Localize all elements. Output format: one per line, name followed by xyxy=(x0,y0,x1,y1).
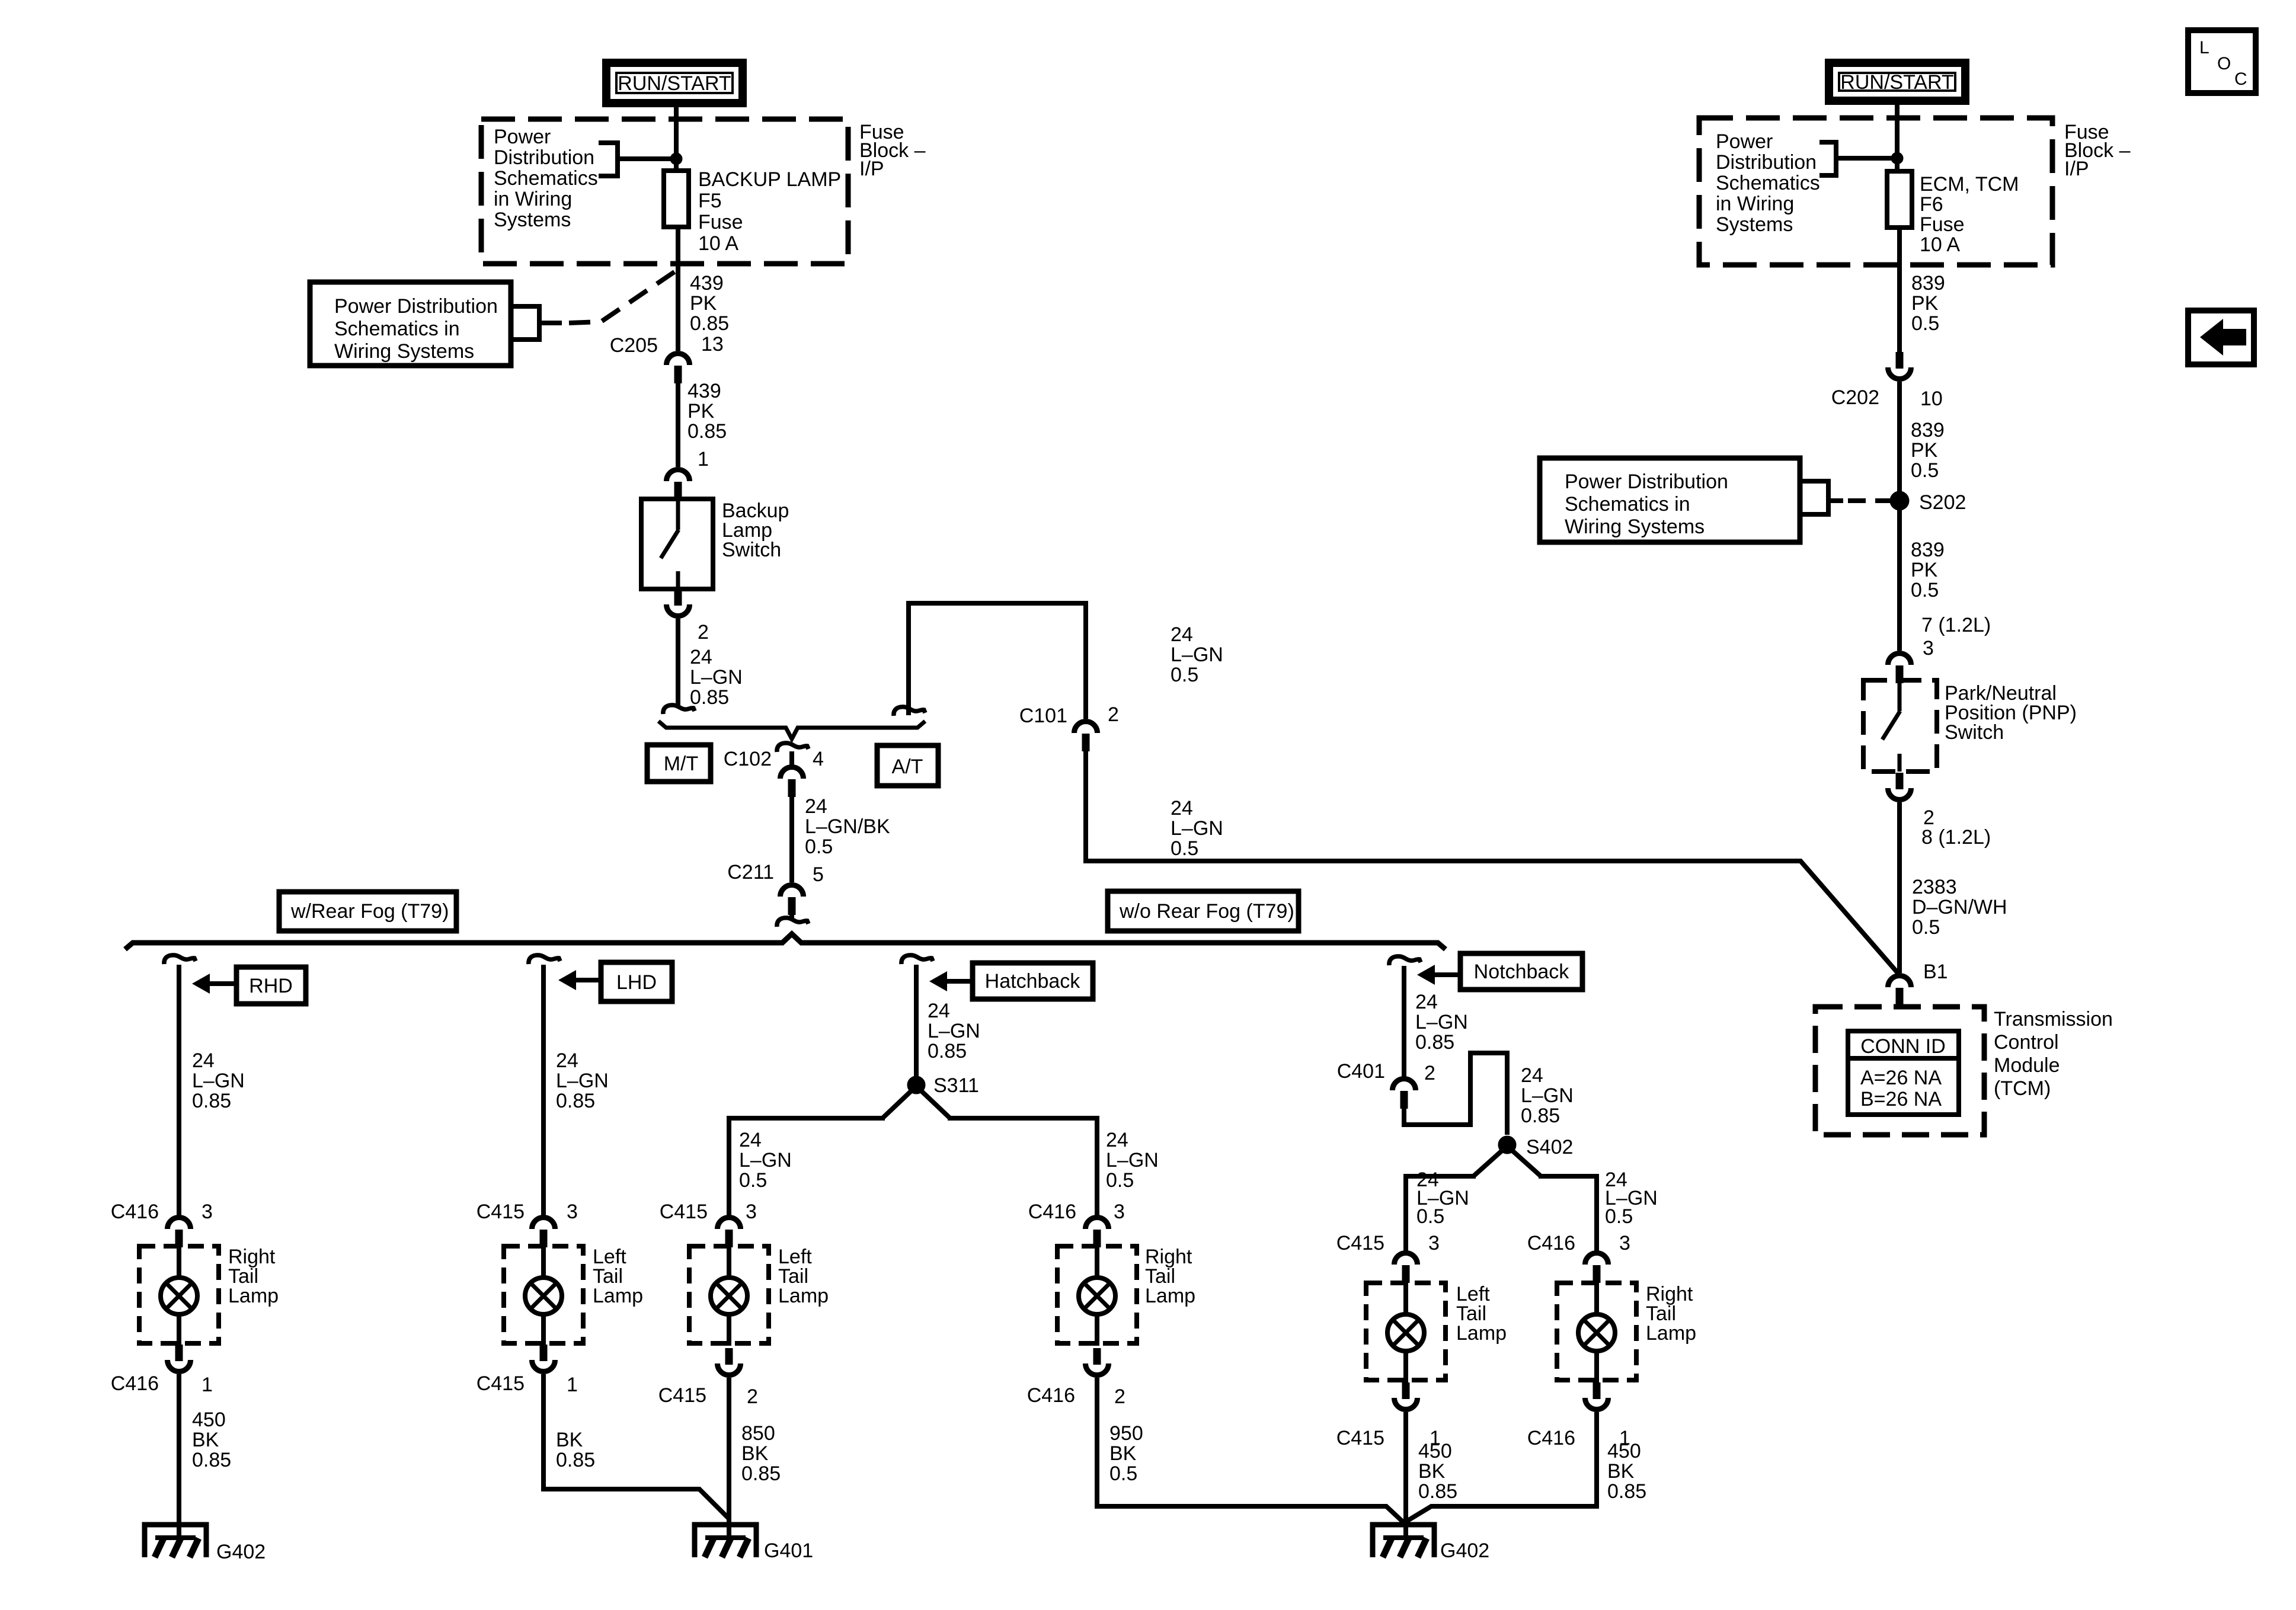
wire RUN/START to fuse block (right) xyxy=(1895,105,1900,172)
wire to ground, label 450 BK 0.85 xyxy=(177,1374,181,1538)
svg-text:C205: C205 xyxy=(610,334,658,357)
svg-text:BK: BK xyxy=(1418,1460,1446,1483)
svg-text:PK: PK xyxy=(1911,439,1938,462)
svg-text:0.85: 0.85 xyxy=(690,312,729,335)
svg-text:0.5: 0.5 xyxy=(1911,312,1939,335)
svg-text:CONN ID: CONN ID xyxy=(1860,1035,1946,1058)
svg-text:L: L xyxy=(2199,38,2209,57)
svg-text:Wiring Systems: Wiring Systems xyxy=(1565,516,1705,538)
svg-text:S202: S202 xyxy=(1919,491,1966,514)
svg-text:C416: C416 xyxy=(1028,1201,1076,1223)
svg-text:Fuse: Fuse xyxy=(698,211,743,233)
svg-text:A=26 NA: A=26 NA xyxy=(1860,1067,1942,1089)
svg-text:Transmission: Transmission xyxy=(1994,1008,2113,1030)
svg-text:C101: C101 xyxy=(1019,705,1067,727)
wire fuse F5 to connector C205 xyxy=(676,227,680,351)
svg-text:3: 3 xyxy=(1619,1232,1630,1254)
svg-text:RUN/START: RUN/START xyxy=(618,72,731,95)
left tail lamp (notchback) xyxy=(1366,1283,1446,1380)
svg-text:S311: S311 xyxy=(933,1074,979,1097)
svg-text:(TCM): (TCM) xyxy=(1994,1077,2051,1100)
park/neutral position (PNP) switch xyxy=(1863,680,1937,772)
svg-text:C401: C401 xyxy=(1337,1060,1385,1083)
svg-text:B=26 NA: B=26 NA xyxy=(1860,1088,1942,1110)
fuse F6 ECM, TCM 10 A xyxy=(1887,171,1912,228)
svg-text:4: 4 xyxy=(813,748,824,770)
Hatchback branch wire, label 24 L-GN 0.85 xyxy=(914,965,919,1081)
fuse F5 BACKUP LAMP 10 A xyxy=(664,171,689,227)
svg-text:Lamp: Lamp xyxy=(228,1285,279,1307)
ground G402 (left) xyxy=(145,1525,206,1557)
svg-text:0.5: 0.5 xyxy=(1911,579,1939,601)
svg-text:I/P: I/P xyxy=(2064,158,2089,180)
svg-text:7 (1.2L): 7 (1.2L) xyxy=(1921,614,1991,636)
S311 split wires to two lamps xyxy=(882,1086,950,1118)
svg-text:Systems: Systems xyxy=(1716,213,1793,236)
svg-text:0.85: 0.85 xyxy=(687,420,727,443)
svg-text:L–GN/BK: L–GN/BK xyxy=(805,815,890,838)
transmission control module (TCM) dashed box xyxy=(1815,1007,1984,1135)
svg-text:24: 24 xyxy=(556,1049,578,1072)
svg-text:Notchback: Notchback xyxy=(1474,961,1570,983)
svg-text:RUN/START: RUN/START xyxy=(1840,71,1953,94)
svg-text:13: 13 xyxy=(701,333,724,356)
svg-text:Switch: Switch xyxy=(722,539,781,561)
wire switch pin 2 to M/T brace, label 24 L-GN 0.85 xyxy=(676,619,680,706)
RHD arrow and box xyxy=(192,974,210,994)
wire C101 down, right, diagonal to TCM B1; label 24 L-GN 0.5 xyxy=(1086,751,1898,974)
svg-text:0.5: 0.5 xyxy=(805,836,833,858)
svg-text:24: 24 xyxy=(928,1000,950,1022)
LHD branch hook xyxy=(529,955,560,964)
svg-text:BACKUP LAMP: BACKUP LAMP xyxy=(698,168,841,191)
svg-text:BK: BK xyxy=(741,1442,769,1465)
svg-text:24: 24 xyxy=(1106,1129,1128,1151)
svg-text:L–GN: L–GN xyxy=(928,1020,980,1042)
wire C202 to S202, label 839 PK 0.5 xyxy=(1897,382,1902,493)
svg-text:C415: C415 xyxy=(1336,1427,1384,1449)
svg-text:0.5: 0.5 xyxy=(1416,1205,1444,1228)
svg-text:0.5: 0.5 xyxy=(1171,837,1198,860)
svg-text:450: 450 xyxy=(1418,1440,1452,1462)
svg-text:0.5: 0.5 xyxy=(739,1169,767,1192)
svg-text:S402: S402 xyxy=(1526,1136,1573,1158)
svg-text:A/T: A/T xyxy=(892,756,923,778)
svg-text:PK: PK xyxy=(687,400,715,422)
label box w/Rear Fog (T79) xyxy=(279,892,456,931)
fuse block dashed box (right, Fuse Block - I/P) xyxy=(1699,118,2052,265)
wire C401 to S402 (down right up right down), label 24 L-GN 0.85 xyxy=(1404,1053,1507,1135)
junction node on wire at fuse block (right) xyxy=(1891,152,1903,164)
svg-text:C415: C415 xyxy=(658,1384,706,1407)
svg-text:3: 3 xyxy=(1428,1232,1440,1254)
node RUN/START (left feed) xyxy=(606,63,743,103)
svg-text:Schematics in: Schematics in xyxy=(1565,493,1690,516)
svg-text:439: 439 xyxy=(687,380,721,402)
svg-text:0.85: 0.85 xyxy=(1521,1105,1560,1127)
right tail lamp (RHD) xyxy=(139,1246,219,1343)
svg-text:0.5: 0.5 xyxy=(1106,1169,1134,1192)
svg-text:BK: BK xyxy=(192,1429,219,1451)
svg-text:450: 450 xyxy=(192,1409,226,1431)
backup lamp switch xyxy=(667,470,690,482)
svg-text:C202: C202 xyxy=(1831,386,1879,409)
CONN ID table xyxy=(1848,1031,1959,1115)
svg-text:3: 3 xyxy=(1923,637,1934,660)
svg-text:0.85: 0.85 xyxy=(741,1462,781,1485)
Hatchback arrow and box xyxy=(929,971,947,991)
svg-text:24: 24 xyxy=(192,1049,215,1072)
main bus brace (w/Rear Fog | w/o Rear Fog) xyxy=(125,934,1446,949)
wire C211 to main bus with end hook xyxy=(789,914,794,918)
left tail lamp (hatchback) xyxy=(689,1246,769,1343)
S402 split wires to notchback lamps xyxy=(1473,1146,1541,1176)
note box Power Distribution Schematics in Wiring Systems (right) xyxy=(1540,458,1800,542)
svg-text:BK: BK xyxy=(556,1429,583,1451)
svg-text:L–GN: L–GN xyxy=(739,1149,792,1172)
svg-text:Schematics: Schematics xyxy=(1716,172,1820,194)
svg-text:0.85: 0.85 xyxy=(690,686,729,709)
svg-text:Power Distribution: Power Distribution xyxy=(334,295,498,318)
svg-text:2: 2 xyxy=(1424,1062,1435,1084)
RHD branch wire, label 24 L-GN 0.85 xyxy=(177,965,181,1216)
svg-text:Distribution: Distribution xyxy=(494,146,594,169)
svg-text:0.85: 0.85 xyxy=(1607,1480,1646,1503)
svg-text:24: 24 xyxy=(805,795,827,818)
svg-text:439: 439 xyxy=(690,272,724,295)
svg-text:24: 24 xyxy=(1415,991,1438,1013)
connector C415 pin 1 (LHD) xyxy=(540,1345,548,1361)
svg-text:0.85: 0.85 xyxy=(556,1090,595,1112)
Hatchback branch hook xyxy=(901,955,933,964)
svg-text:C415: C415 xyxy=(660,1201,708,1223)
svg-text:24: 24 xyxy=(1171,623,1193,646)
svg-text:C416: C416 xyxy=(111,1372,159,1395)
svg-text:w/o Rear Fog (T79): w/o Rear Fog (T79) xyxy=(1119,900,1294,923)
brace M/T / A/T split xyxy=(658,721,925,739)
svg-text:Module: Module xyxy=(1994,1054,2060,1077)
svg-text:10 A: 10 A xyxy=(698,232,738,255)
svg-text:L–GN: L–GN xyxy=(1415,1011,1468,1033)
svg-text:L–GN: L–GN xyxy=(556,1070,609,1092)
Notchback branch wire, label 24 L-GN 0.85 xyxy=(1402,966,1406,1077)
svg-text:C416: C416 xyxy=(1527,1232,1575,1254)
bracket from note to wire (right fuse block) xyxy=(1819,140,1838,145)
svg-text:2: 2 xyxy=(698,621,709,644)
svg-text:L–GN: L–GN xyxy=(1106,1149,1159,1172)
svg-text:C416: C416 xyxy=(111,1201,159,1223)
svg-text:BK: BK xyxy=(1607,1460,1635,1483)
svg-text:Systems: Systems xyxy=(494,209,571,231)
svg-text:Lamp: Lamp xyxy=(593,1285,643,1307)
svg-text:F5: F5 xyxy=(698,190,722,212)
svg-text:ECM, TCM: ECM, TCM xyxy=(1920,173,2019,196)
svg-text:0.85: 0.85 xyxy=(556,1449,595,1471)
svg-text:Lamp: Lamp xyxy=(1145,1285,1195,1307)
svg-text:Control: Control xyxy=(1994,1031,2059,1054)
svg-text:RHD: RHD xyxy=(249,975,293,997)
svg-text:L–GN: L–GN xyxy=(1521,1084,1574,1107)
node RUN/START (right feed) xyxy=(1829,63,1965,101)
svg-text:L–GN: L–GN xyxy=(690,666,743,689)
svg-text:2: 2 xyxy=(1114,1385,1125,1408)
svg-text:Switch: Switch xyxy=(1945,721,2004,744)
wire fuse F6 to connector C202, label 839 PK 0.5 xyxy=(1897,228,1902,352)
connector C416 pin 2 (hatchback right) xyxy=(1093,1348,1101,1365)
svg-text:Distribution: Distribution xyxy=(1716,151,1817,174)
svg-text:850: 850 xyxy=(741,1422,775,1445)
svg-text:C: C xyxy=(2234,69,2247,89)
ground G402 (notchback) xyxy=(1373,1525,1434,1557)
wire RUN/START to fuse block xyxy=(674,107,679,172)
svg-text:24: 24 xyxy=(1521,1064,1543,1087)
svg-text:Wiring Systems: Wiring Systems xyxy=(334,340,474,363)
svg-text:2: 2 xyxy=(747,1385,758,1408)
left tail lamp (LHD) xyxy=(504,1246,583,1343)
wire C205 to backup lamp switch, label 439 PK 0.85 xyxy=(676,383,680,467)
wire to G401 (down, right, diagonal), label BK 0.85 xyxy=(543,1374,729,1519)
A/T box xyxy=(877,745,938,786)
svg-text:3: 3 xyxy=(202,1201,213,1223)
wire to ground G402, label 450 BK 0.85 xyxy=(1403,1412,1408,1538)
wire C102 to C211, label 24 L-GN/BK 0.5 xyxy=(789,797,794,882)
svg-text:8 (1.2L): 8 (1.2L) xyxy=(1921,826,1991,849)
svg-text:3: 3 xyxy=(567,1201,578,1223)
svg-text:0.85: 0.85 xyxy=(928,1040,967,1062)
svg-text:1: 1 xyxy=(202,1374,213,1396)
svg-text:839: 839 xyxy=(1911,419,1945,441)
svg-text:0.5: 0.5 xyxy=(1605,1205,1633,1228)
connector C416 pin 1 (notchback right) xyxy=(1593,1382,1601,1399)
left-arrow corner box xyxy=(2188,311,2254,364)
dashed leader to S202 xyxy=(1848,498,1890,503)
svg-text:C415: C415 xyxy=(477,1201,525,1223)
svg-text:Hatchback: Hatchback xyxy=(985,970,1081,993)
svg-text:0.5: 0.5 xyxy=(1109,1462,1137,1485)
svg-text:950: 950 xyxy=(1109,1422,1143,1445)
svg-text:PK: PK xyxy=(690,292,717,315)
svg-text:C415: C415 xyxy=(477,1372,525,1395)
svg-text:G402: G402 xyxy=(1440,1539,1489,1562)
svg-text:839: 839 xyxy=(1911,272,1945,295)
svg-text:5: 5 xyxy=(813,863,824,886)
svg-text:LHD: LHD xyxy=(616,971,657,994)
svg-text:Power: Power xyxy=(1716,130,1773,153)
svg-text:Lamp: Lamp xyxy=(1456,1322,1507,1345)
svg-text:3: 3 xyxy=(1114,1201,1125,1223)
splice S402 xyxy=(1498,1136,1516,1154)
splice S311 xyxy=(907,1076,925,1094)
svg-text:C416: C416 xyxy=(1527,1427,1575,1449)
svg-text:0.85: 0.85 xyxy=(192,1090,231,1112)
svg-text:F6: F6 xyxy=(1920,193,1943,216)
svg-text:C102: C102 xyxy=(724,748,772,770)
svg-text:PK: PK xyxy=(1911,292,1939,315)
bracket of left note box xyxy=(511,304,542,309)
svg-text:10: 10 xyxy=(1920,388,1943,410)
svg-text:24: 24 xyxy=(690,646,712,668)
svg-text:Schematics in: Schematics in xyxy=(334,318,460,340)
svg-text:24: 24 xyxy=(1171,797,1193,820)
connector pin 2 of PNP switch xyxy=(1896,773,1904,789)
note box Power Distribution Schematics in Wiring Systems (left) xyxy=(310,282,511,366)
wire to G402 (down, right, diagonal), label 950 BK 0.5 xyxy=(1097,1378,1403,1522)
svg-text:Lamp: Lamp xyxy=(778,1285,829,1307)
connector C415 pin 2 (hatchback left) xyxy=(725,1348,733,1365)
label box w/o Rear Fog (T79) xyxy=(1108,891,1299,931)
svg-text:Lamp: Lamp xyxy=(1646,1322,1696,1345)
svg-text:1: 1 xyxy=(698,448,709,470)
RHD branch hook xyxy=(164,955,196,964)
svg-text:I/P: I/P xyxy=(859,158,884,180)
right tail lamp (hatchback) xyxy=(1057,1246,1137,1343)
Notchback arrow and box xyxy=(1417,965,1435,985)
bracket of right note box xyxy=(1800,479,1831,484)
svg-text:Power: Power xyxy=(494,126,551,148)
svg-text:Power Distribution: Power Distribution xyxy=(1565,470,1728,493)
connector pin 3 into PNP switch xyxy=(1888,654,1911,665)
svg-text:C416: C416 xyxy=(1027,1384,1075,1407)
svg-text:L–GN: L–GN xyxy=(192,1070,245,1092)
A/T branch wire up and over to C101 xyxy=(894,707,925,716)
svg-text:2383: 2383 xyxy=(1912,876,1957,898)
svg-text:0.85: 0.85 xyxy=(1418,1480,1457,1503)
svg-text:B1: B1 xyxy=(1923,961,1948,983)
svg-text:450: 450 xyxy=(1607,1440,1641,1462)
LOC corner box xyxy=(2188,30,2256,93)
connector C202 pin 10 xyxy=(1896,352,1904,369)
connector C416 pin 1 (RHD) xyxy=(175,1345,183,1361)
svg-text:Fuse: Fuse xyxy=(1920,213,1965,236)
wire to G402 (down, left, diagonal), label 450 BK 0.85 xyxy=(1406,1412,1597,1522)
svg-text:G402: G402 xyxy=(216,1541,266,1563)
dashed leader from note box to wire xyxy=(569,268,680,323)
svg-text:2: 2 xyxy=(1108,703,1119,726)
connector C415 pin 1 (notchback left) xyxy=(1402,1382,1410,1399)
svg-text:in Wiring: in Wiring xyxy=(494,188,572,210)
fuse block dashed box (left, Fuse Block - I/P) xyxy=(481,119,848,264)
svg-text:M/T: M/T xyxy=(664,753,699,775)
bracket from note to wire (left fuse block) xyxy=(599,140,620,145)
svg-text:L–GN: L–GN xyxy=(1171,817,1223,840)
svg-text:0.85: 0.85 xyxy=(1415,1031,1454,1054)
LHD branch wire, label 24 L-GN 0.85 xyxy=(541,965,546,1216)
svg-text:24: 24 xyxy=(739,1129,762,1151)
Notchback branch hook xyxy=(1389,956,1421,965)
svg-text:L–GN: L–GN xyxy=(1171,644,1223,666)
svg-text:1: 1 xyxy=(567,1374,578,1396)
svg-text:0.5: 0.5 xyxy=(1911,459,1939,482)
svg-text:O: O xyxy=(2217,54,2231,73)
wire S202 to PNP switch, label 839 PK 0.5 xyxy=(1897,510,1902,651)
svg-text:0.85: 0.85 xyxy=(192,1449,231,1471)
svg-text:w/Rear Fog (T79): w/Rear Fog (T79) xyxy=(290,900,449,923)
wire to ground G401, label 850 BK 0.85 xyxy=(727,1378,731,1538)
svg-text:3: 3 xyxy=(746,1201,757,1223)
wire PNP to TCM B1, label 2383 D-GN/WH 0.5 xyxy=(1897,802,1902,973)
svg-text:0.5: 0.5 xyxy=(1171,664,1198,686)
svg-text:D–GN/WH: D–GN/WH xyxy=(1912,896,2007,918)
ground G401 xyxy=(695,1525,756,1557)
svg-text:BK: BK xyxy=(1109,1442,1137,1465)
M/T box xyxy=(647,745,711,782)
svg-text:in Wiring: in Wiring xyxy=(1716,193,1794,215)
svg-text:839: 839 xyxy=(1911,539,1945,561)
LHD arrow and box xyxy=(558,970,576,990)
right tail lamp (notchback) xyxy=(1557,1283,1636,1380)
svg-text:Schematics: Schematics xyxy=(494,167,598,190)
junction node on wire at fuse block (left) xyxy=(670,153,682,165)
svg-text:10 A: 10 A xyxy=(1920,233,1960,256)
svg-text:C211: C211 xyxy=(727,861,774,884)
svg-text:PK: PK xyxy=(1911,559,1938,581)
splice S202 xyxy=(1890,491,1909,510)
svg-text:0.5: 0.5 xyxy=(1912,916,1940,939)
svg-text:C415: C415 xyxy=(1336,1232,1384,1254)
svg-text:G401: G401 xyxy=(764,1539,813,1562)
